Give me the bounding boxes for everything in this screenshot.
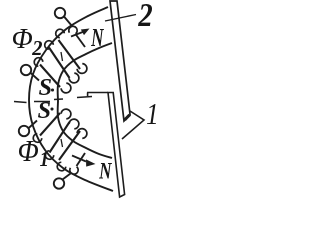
terminal T1 xyxy=(55,8,65,18)
magnet core outer edge xyxy=(29,7,113,191)
lead T2 xyxy=(31,73,40,81)
leader to label 2 xyxy=(105,15,136,22)
label 2 xyxy=(138,4,152,26)
label N lower xyxy=(99,163,112,179)
label Phi2 xyxy=(13,29,32,48)
label N upper xyxy=(91,29,104,46)
magnet core inner edge lower xyxy=(58,101,112,158)
flux dash-dot along core xyxy=(51,52,62,147)
coil W1 (lower) winding xyxy=(33,109,87,174)
strip 2 dark end cap xyxy=(125,115,130,120)
magnet core inner edge upper xyxy=(58,43,112,101)
flux arrow upper xyxy=(71,32,84,37)
lead T1 xyxy=(64,17,72,27)
chevron pointer xyxy=(122,111,144,139)
label Phi1 xyxy=(19,141,38,161)
armature 1 strip xyxy=(108,93,125,198)
flux arrow lower xyxy=(72,156,86,162)
lead T3 xyxy=(29,121,38,129)
armature 1 horizontal arm xyxy=(87,93,108,97)
vane strip 2 (upper segment) xyxy=(110,1,130,121)
wire: horizontal dash-dot symmetry axis xyxy=(14,97,92,103)
coil W2 (upper) winding xyxy=(34,26,87,93)
label S upper xyxy=(39,79,51,95)
lead T4 xyxy=(63,174,71,180)
label S lower xyxy=(38,102,50,118)
terminal T2 xyxy=(21,65,31,75)
terminal T4 xyxy=(54,178,64,188)
label 1 xyxy=(147,104,156,124)
terminal T3 xyxy=(19,126,29,136)
